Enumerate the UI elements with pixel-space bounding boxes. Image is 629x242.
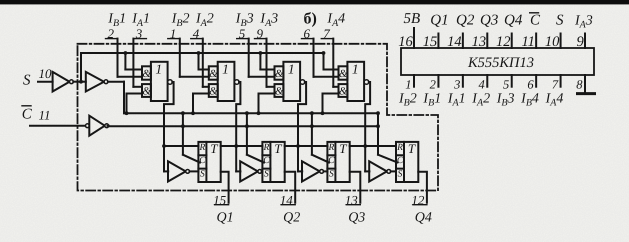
svg-text:1: 1 xyxy=(405,78,411,92)
svg-text:C: C xyxy=(530,12,541,28)
svg-text:C: C xyxy=(263,156,270,166)
svg-text:4: 4 xyxy=(479,78,485,92)
svg-text:10: 10 xyxy=(39,66,53,81)
svg-text:Q1: Q1 xyxy=(217,210,234,225)
svg-text:S: S xyxy=(329,170,334,180)
svg-text:9: 9 xyxy=(577,34,585,50)
svg-text:3: 3 xyxy=(453,78,460,92)
svg-text:16: 16 xyxy=(398,34,413,50)
svg-text:&: & xyxy=(142,68,151,80)
svg-text:2: 2 xyxy=(430,78,436,92)
svg-text:S: S xyxy=(556,12,564,28)
svg-text:15: 15 xyxy=(423,34,438,50)
svg-text:1: 1 xyxy=(155,62,162,77)
svg-text:Q2: Q2 xyxy=(456,12,475,28)
svg-text:&: & xyxy=(209,68,218,80)
svg-text:C: C xyxy=(328,156,335,166)
svg-text:14: 14 xyxy=(447,34,462,50)
svg-text:б): б) xyxy=(304,10,317,27)
svg-text:S: S xyxy=(200,170,205,180)
svg-text:Q3: Q3 xyxy=(348,210,365,225)
svg-text:R: R xyxy=(327,143,334,153)
svg-text:S: S xyxy=(23,73,31,89)
svg-text:10: 10 xyxy=(545,34,560,50)
svg-text:R: R xyxy=(262,143,269,153)
svg-text:1: 1 xyxy=(222,62,229,77)
svg-text:Q2: Q2 xyxy=(283,210,300,225)
svg-text:T: T xyxy=(274,141,282,156)
svg-text:11: 11 xyxy=(522,34,535,50)
svg-text:T: T xyxy=(408,141,416,156)
svg-text:&: & xyxy=(339,85,348,97)
svg-text:&: & xyxy=(209,85,218,97)
svg-text:R: R xyxy=(198,143,205,153)
svg-text:Q4: Q4 xyxy=(504,12,523,28)
svg-text:6: 6 xyxy=(527,78,534,92)
svg-text:7: 7 xyxy=(552,78,559,92)
svg-text:5: 5 xyxy=(503,78,509,92)
svg-text:C: C xyxy=(199,156,206,166)
svg-text:C: C xyxy=(397,156,404,166)
svg-text:S: S xyxy=(398,170,403,180)
svg-text:R: R xyxy=(396,143,403,153)
svg-text:Q4: Q4 xyxy=(415,210,432,225)
svg-text:T: T xyxy=(210,141,218,156)
svg-text:&: & xyxy=(275,68,284,80)
svg-text:T: T xyxy=(339,141,347,156)
svg-text:&: & xyxy=(275,85,284,97)
svg-text:1: 1 xyxy=(288,62,295,77)
svg-text:8: 8 xyxy=(576,78,583,92)
svg-text:5В: 5В xyxy=(404,11,421,27)
svg-text:К555КП13: К555КП13 xyxy=(467,55,534,71)
svg-text:&: & xyxy=(339,68,348,80)
svg-text:1: 1 xyxy=(352,62,359,77)
svg-text:Q1: Q1 xyxy=(430,12,448,28)
svg-text:13: 13 xyxy=(472,34,487,50)
svg-text:S: S xyxy=(264,170,269,180)
svg-text:C: C xyxy=(22,107,33,123)
svg-text:12: 12 xyxy=(496,34,511,50)
svg-text:11: 11 xyxy=(39,108,51,123)
svg-text:Q3: Q3 xyxy=(480,12,498,28)
svg-text:&: & xyxy=(142,85,151,97)
